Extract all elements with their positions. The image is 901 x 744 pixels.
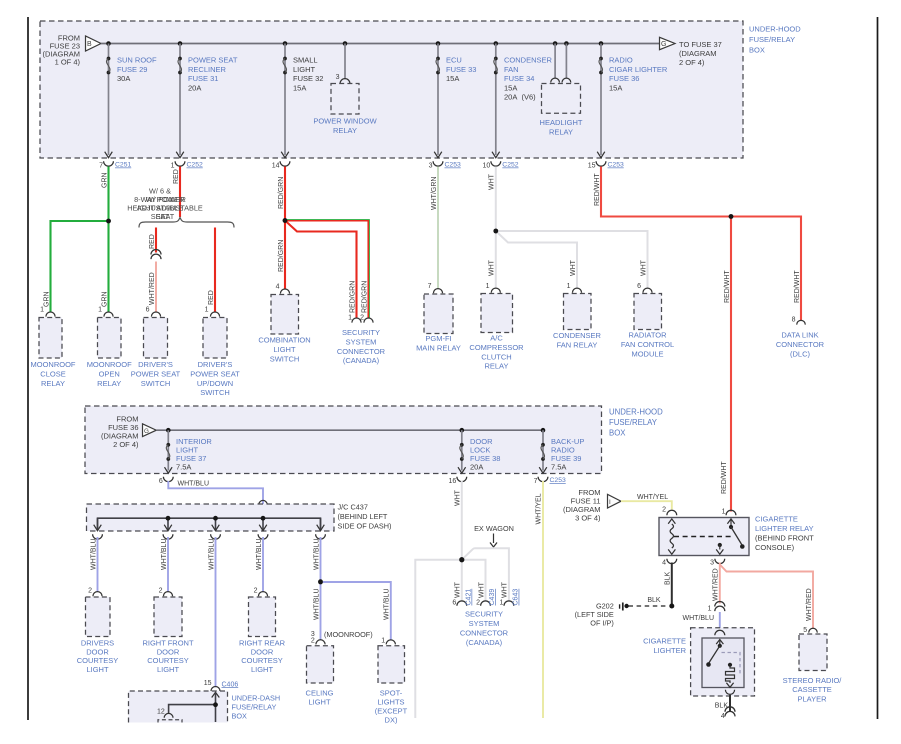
svg-text:GRN: GRN <box>43 291 50 307</box>
combination light switch (box) <box>271 295 299 335</box>
svg-text:C252: C252 <box>187 162 203 169</box>
label WHT/GRN <box>431 177 438 210</box>
svg-text:6: 6 <box>159 478 163 485</box>
connector triangle B (from fuse 23) <box>86 36 102 51</box>
svg-text:SWITCH: SWITCH <box>200 388 230 397</box>
entry arc into J/C C437 <box>259 500 267 504</box>
svg-text:7.5A: 7.5A <box>176 463 191 472</box>
pin 2 cigarette lighter relay <box>662 507 677 516</box>
J/C exits <box>93 518 326 539</box>
pin 1 C643 security connector <box>499 589 519 607</box>
svg-text:WHT: WHT <box>570 259 577 276</box>
svg-text:COURTESY: COURTESY <box>147 656 189 665</box>
label: G202 (left side of I/P) <box>575 601 614 627</box>
svg-text:1: 1 <box>205 307 209 314</box>
svg-text:DOOR: DOOR <box>157 647 180 656</box>
wire GRN from C251 pin 7 <box>107 167 109 313</box>
driver's power seat up/down switch (box) <box>203 318 227 359</box>
svg-text:2: 2 <box>88 588 92 595</box>
label WHT/RED <box>149 272 156 305</box>
svg-text:CONNECTOR: CONNECTOR <box>776 340 825 349</box>
label: stereo radio/cassette player <box>783 676 843 704</box>
label: condenser fan fuse 34 <box>504 55 553 101</box>
label: data link connector (DLC) <box>776 331 825 359</box>
svg-text:7.5A: 7.5A <box>551 463 566 472</box>
label: interior light fuse 37 7.5A <box>176 437 212 472</box>
fuse F29 (sun roof 30A) <box>107 57 111 75</box>
brace over seat switch options <box>139 218 234 228</box>
svg-text:SECURITY: SECURITY <box>342 328 380 337</box>
svg-text:14: 14 <box>272 163 280 170</box>
svg-text:RED: RED <box>208 290 215 305</box>
label: w/6 & 8-way power adjustable seat (overprinted) <box>134 187 186 222</box>
relay K headlight (dashed box) <box>542 84 581 114</box>
label WHT (C421) <box>455 581 462 598</box>
svg-text:RELAY: RELAY <box>333 126 357 135</box>
fuse F36 (radio cigar lighter 15A) <box>599 57 603 75</box>
junction box J/C C437 (dashed) <box>87 504 335 531</box>
label WHT/YEL <box>637 494 668 501</box>
svg-text:C252: C252 <box>502 162 518 169</box>
condenser fan relay (box) <box>564 294 592 330</box>
relay dashed actuator line <box>674 536 734 538</box>
svg-text:UNDER-DASH: UNDER-DASH <box>232 694 281 703</box>
svg-text:WHT/RED: WHT/RED <box>806 588 813 621</box>
exit C253 pin 3 <box>429 152 461 170</box>
svg-text:C439: C439 <box>489 589 496 606</box>
svg-text:COMBINATION: COMBINATION <box>258 336 310 345</box>
label WHT/BLU (spot) <box>383 589 390 621</box>
svg-text:WHT/GRN: WHT/GRN <box>431 177 438 210</box>
svg-text:1 OF 4): 1 OF 4) <box>55 58 81 67</box>
svg-text:6: 6 <box>146 307 150 314</box>
wire BLK from relay pin 4 <box>671 563 673 605</box>
label WHT (C439) <box>478 581 485 598</box>
wire WHT branch to condenser fan relay <box>496 231 577 289</box>
svg-text:15A: 15A <box>609 83 622 92</box>
svg-text:COMPRESSOR: COMPRESSOR <box>469 343 524 352</box>
svg-text:WHT/RED: WHT/RED <box>713 568 720 601</box>
fuse F37 (interior light 7.5A) <box>166 443 170 461</box>
label GRN upper <box>101 172 108 188</box>
exit pin 14 <box>272 152 290 170</box>
wire GRN branch to moonroof close relay <box>51 221 109 312</box>
svg-text:RED/GRN: RED/GRN <box>278 177 285 209</box>
svg-text:4: 4 <box>276 284 280 291</box>
svg-text:C643: C643 <box>513 589 520 606</box>
connector 15 C406 <box>204 680 239 691</box>
svg-text:CIGAR LIGHTER: CIGAR LIGHTER <box>609 65 668 74</box>
label WHT (condenser) <box>570 259 577 276</box>
wire inside under-dash box <box>169 692 220 722</box>
label: cigarette lighter <box>643 637 686 656</box>
junction node GRN <box>106 219 111 224</box>
svg-text:WHT/BLU: WHT/BLU <box>313 589 320 621</box>
label: sun roof fuse 29 30A <box>117 55 157 83</box>
node on bus (fuse 34) <box>494 41 499 46</box>
svg-text:5: 5 <box>803 627 807 634</box>
wire WHT/BLU to under-dash box <box>215 537 217 687</box>
svg-text:RECLINER: RECLINER <box>188 65 227 74</box>
wire RED to seat switch (left) <box>155 228 157 253</box>
svg-text:FUSE 33: FUSE 33 <box>446 65 476 74</box>
moonroof open relay (box) <box>98 318 122 359</box>
svg-text:GRN: GRN <box>101 291 108 307</box>
EX WAGON arrow <box>490 534 497 548</box>
svg-text:CIGARETTE: CIGARETTE <box>643 637 686 646</box>
svg-text:EX WAGON: EX WAGON <box>474 524 514 533</box>
svg-text:20A: 20A <box>188 83 201 92</box>
svg-text:1: 1 <box>381 638 385 645</box>
entry arc cigarette lighter <box>715 630 725 635</box>
svg-text:RIGHT REAR: RIGHT REAR <box>239 639 286 648</box>
pin 1 cigarette lighter relay <box>722 509 736 516</box>
svg-text:WHT: WHT <box>455 489 462 506</box>
svg-text:CONDENSER: CONDENSER <box>553 331 602 340</box>
fuse F33 (ECU 15A) <box>436 57 440 75</box>
label GRN right branch <box>101 291 108 307</box>
pin 1 security system connector <box>348 315 361 323</box>
svg-text:CONSOLE): CONSOLE) <box>755 543 795 552</box>
svg-text:SPOT-: SPOT- <box>380 689 403 698</box>
svg-text:3 OF 4): 3 OF 4) <box>575 514 601 523</box>
svg-text:1: 1 <box>567 283 571 290</box>
label WHT/RED (stereo) <box>806 588 813 621</box>
svg-text:SECURITY: SECURITY <box>465 610 503 619</box>
pin 2 right rear door courtesy light <box>254 588 268 597</box>
wire fuse 38 drop <box>461 430 463 470</box>
svg-text:WHT/BLU: WHT/BLU <box>683 615 715 622</box>
svg-text:ECU: ECU <box>446 55 462 64</box>
svg-text:WHT/YEL: WHT/YEL <box>536 493 543 524</box>
wire WHT/GRN from C253 pin 3 <box>437 167 439 290</box>
bus wire in top box <box>101 43 660 45</box>
wire fuse 32 drop <box>284 44 286 156</box>
wire RED/WHT to cigarette lighter relay <box>730 217 732 512</box>
svg-text:6: 6 <box>452 600 456 607</box>
fuse F39 (back-up radio 7.5A) <box>541 443 545 461</box>
svg-text:DRIVERS: DRIVERS <box>81 639 114 648</box>
junction node WHT security <box>459 557 464 562</box>
wire RED/GRN from pin 14 <box>284 167 286 290</box>
svg-text:3: 3 <box>336 74 340 81</box>
svg-text:C251: C251 <box>115 162 131 169</box>
cigarette lighter internals <box>706 640 740 688</box>
svg-text:FAN RELAY: FAN RELAY <box>557 340 598 349</box>
svg-text:1: 1 <box>499 600 503 607</box>
svg-text:LIGHT: LIGHT <box>308 698 331 707</box>
svg-text:LIGHTER RELAY: LIGHTER RELAY <box>755 524 814 533</box>
label: right rear door courtesy light <box>239 639 286 674</box>
svg-text:WHT: WHT <box>478 581 485 598</box>
exit pin 6 (interior light) <box>159 467 173 485</box>
node on bus (fuse 29) <box>106 41 111 46</box>
wire WHT/BLU from fuse 37 to J/C C437 <box>168 481 263 518</box>
label: cigarette lighter relay (behind front console) <box>755 515 814 553</box>
svg-text:SIDE OF DASH): SIDE OF DASH) <box>338 522 392 531</box>
node on bus (fuse 36) <box>599 41 604 46</box>
wire RED/GRN branch to security pin 2 <box>285 220 369 318</box>
svg-text:4: 4 <box>721 713 725 720</box>
svg-text:OF I/P): OF I/P) <box>590 619 614 628</box>
svg-text:G: G <box>144 428 149 435</box>
node on bus (fuse 33) <box>436 41 441 46</box>
svg-text:SEAT: SEAT <box>156 212 175 221</box>
svg-text:20A: 20A <box>470 463 483 472</box>
moonroof close relay (box) <box>39 318 62 359</box>
svg-text:7: 7 <box>428 283 432 290</box>
svg-text:FUSE 31: FUSE 31 <box>188 74 218 83</box>
exit pin 16 (door lock) <box>449 467 467 485</box>
wire fuse 34 drop <box>495 44 497 156</box>
svg-text:COURTESY: COURTESY <box>77 656 119 665</box>
svg-text:POWER WINDOW: POWER WINDOW <box>313 117 377 126</box>
wire WHT/BLU into cigarette lighter <box>719 612 721 631</box>
under-hood fuse/relay box (top) <box>40 21 743 158</box>
right rear door courtesy light (box) <box>249 597 276 637</box>
pin 7 PGM-FI main relay <box>428 283 443 293</box>
label: from fuse 23 (diagram 1 of 4) <box>43 34 81 67</box>
svg-text:RED/WHT: RED/WHT <box>724 270 731 303</box>
svg-text:I: I <box>609 499 611 506</box>
svg-text:SWITCH: SWITCH <box>141 379 171 388</box>
svg-text:C253: C253 <box>550 477 566 484</box>
svg-text:FAN: FAN <box>504 65 519 74</box>
svg-text:2: 2 <box>662 507 666 514</box>
label: under-dash fuse/relay box <box>232 694 281 721</box>
wire WHT from C252 pin 10 <box>495 167 497 289</box>
spot-lights box <box>378 646 405 683</box>
label: driver's power seat up/down switch <box>190 360 240 397</box>
wire RED to up/down switch <box>214 228 216 313</box>
splice RED to WHT/RED <box>151 250 161 260</box>
pin 2 C439 security connector <box>476 589 496 607</box>
node J/C 2 <box>213 516 218 521</box>
label: door lock fuse 38 20A <box>470 437 500 472</box>
svg-text:RIGHT FRONT: RIGHT FRONT <box>142 639 194 648</box>
label WHT/BLU 5 <box>313 539 320 571</box>
label: condenser fan relay <box>553 331 602 349</box>
ground G202 symbol <box>620 603 629 611</box>
svg-text:20A (V6): 20A (V6) <box>504 93 536 102</box>
svg-text:WHT: WHT <box>455 581 462 598</box>
pin 8 data link connector <box>792 317 806 325</box>
label: radiator fan control module <box>621 331 674 359</box>
svg-text:C253: C253 <box>608 162 624 169</box>
node on bus (power window relay) <box>343 41 348 46</box>
svg-text:1: 1 <box>40 307 44 314</box>
label WHT (C643) <box>502 581 509 598</box>
bus wire inside J/C C437 <box>98 518 321 528</box>
drivers door courtesy light (box) <box>86 597 111 637</box>
svg-text:FUSE/RELAY: FUSE/RELAY <box>232 703 277 712</box>
junction node RED/GRN <box>283 218 288 223</box>
junction node RED/WHT <box>729 214 734 219</box>
svg-text:WHT/BLU: WHT/BLU <box>313 539 320 571</box>
label RED/WHT (upper) <box>724 270 731 303</box>
svg-text:MOONROOF: MOONROOF <box>87 360 132 369</box>
wire WHT/BLU to right front door courtesy light <box>167 537 169 592</box>
label: from fuse 11 (diagram 3 of 4) <box>563 488 601 523</box>
node on bus (headlight relay left pin) <box>553 41 558 46</box>
wire WHT/RED branch to stereo <box>720 565 813 630</box>
svg-text:FUSE 29: FUSE 29 <box>117 65 147 74</box>
pin 4 splice (lighter ground) <box>721 707 735 720</box>
wire WHT from fuse 38 pin 16 <box>461 481 463 602</box>
svg-text:FUSE 32: FUSE 32 <box>293 74 323 83</box>
exit C253 pin 15 <box>588 152 624 170</box>
label: A/C compressor clutch relay <box>469 334 524 371</box>
label WHT/BLU (lighter) <box>683 615 715 622</box>
svg-text:3: 3 <box>710 560 714 567</box>
wire fuse 39 drop <box>542 430 544 470</box>
label WHT/BLU 1 <box>90 539 97 571</box>
svg-text:30A: 30A <box>117 74 130 83</box>
exit C252 pin 1 <box>171 152 203 170</box>
pin 3 of power window relay <box>336 74 350 84</box>
exit C251 pin 7 <box>99 152 131 170</box>
svg-text:RED/WHT: RED/WHT <box>794 270 801 303</box>
svg-text:J/C C437: J/C C437 <box>338 503 368 512</box>
label: right front door courtesy light <box>142 639 194 674</box>
label RED (right) <box>208 290 215 305</box>
label: PGM-FI main relay <box>416 334 461 352</box>
svg-text:WHT/YEL: WHT/YEL <box>637 494 668 501</box>
under-dash fuse/relay box <box>129 691 228 723</box>
svg-text:15A: 15A <box>293 83 306 92</box>
label: under-hood fuse/relay box <box>749 25 801 55</box>
label RED/WHT (lower) <box>721 461 728 494</box>
wire WHT/RED to driver's power seat switch <box>155 262 157 313</box>
svg-text:A/C: A/C <box>490 334 503 343</box>
wire WHT/RED from relay pin 3 <box>719 563 721 604</box>
connector triangle (from fuse 11) <box>608 494 622 508</box>
svg-text:2: 2 <box>254 588 258 595</box>
svg-text:MOONROOF: MOONROOF <box>31 360 76 369</box>
node J/C 1 <box>166 516 171 521</box>
svg-text:WHT: WHT <box>640 259 647 276</box>
svg-text:(CANADA): (CANADA) <box>466 638 503 647</box>
svg-text:2 OF 4): 2 OF 4) <box>679 58 705 67</box>
svg-text:SUN ROOF: SUN ROOF <box>117 55 157 64</box>
svg-text:UP/DOWN: UP/DOWN <box>197 379 233 388</box>
svg-text:1: 1 <box>486 283 490 290</box>
wire WHT/BLU branch to spot-lights <box>321 582 391 640</box>
label GRN left branch <box>43 291 50 307</box>
svg-text:(BEHIND FRONT: (BEHIND FRONT <box>755 534 814 543</box>
label: ECU fuse 33 15A <box>446 55 476 83</box>
label: drivers door courtesy light <box>77 639 119 674</box>
bus wire in second box <box>156 429 543 431</box>
svg-text:B: B <box>87 41 92 48</box>
pin 2 security system connector <box>360 315 373 323</box>
wire RED/WHT from C253 pin 15 <box>601 167 801 321</box>
svg-text:15A: 15A <box>446 74 459 83</box>
exit C252 pin 10 <box>483 152 519 170</box>
svg-text:8: 8 <box>792 317 796 324</box>
node on bus (fuse 39) <box>541 428 546 433</box>
svg-text:LIGHTS: LIGHTS <box>377 698 404 707</box>
label RED/GRN upper <box>278 177 285 209</box>
svg-text:C253: C253 <box>445 162 461 169</box>
svg-text:7: 7 <box>99 163 103 170</box>
svg-text:MODULE: MODULE <box>631 349 663 358</box>
wire fuse 37 drop <box>167 430 169 470</box>
stereo radio/cassette player (box) <box>799 634 827 671</box>
wire WHT/BLU to right rear door courtesy light <box>262 537 264 592</box>
cigarette lighter relay (box) <box>659 518 749 556</box>
node on bus (fuse 32) <box>283 41 288 46</box>
junction node under-dash <box>213 702 218 707</box>
label: J/C C437 (behind left side of dash) <box>338 503 392 531</box>
junction node WHT <box>494 229 499 234</box>
svg-text:BOX: BOX <box>232 712 248 721</box>
label: spot-lights (except dx) <box>375 689 408 725</box>
left page border <box>27 17 29 720</box>
node on bus (fuse 38) <box>460 428 465 433</box>
svg-text:10: 10 <box>483 163 491 170</box>
pins of headlight relay <box>551 78 571 82</box>
label WHT/RED (pin 3) <box>713 568 720 601</box>
label WHT/BLU 2 <box>161 539 168 571</box>
pin 2 drivers door courtesy light <box>88 588 102 597</box>
wire WHT/BLU to drivers door courtesy light <box>97 537 99 592</box>
svg-text:WHT/BLU: WHT/BLU <box>90 539 97 571</box>
svg-text:(DLC): (DLC) <box>790 349 811 358</box>
svg-text:(MOONROOF): (MOONROOF) <box>324 630 373 639</box>
label: combination light switch <box>258 336 310 364</box>
svg-text:FUSE/RELAY: FUSE/RELAY <box>749 35 795 44</box>
svg-text:FUSE 34: FUSE 34 <box>504 74 534 83</box>
svg-text:WHT: WHT <box>489 173 496 190</box>
svg-text:CONDENSER: CONDENSER <box>504 55 553 64</box>
svg-text:6: 6 <box>637 283 641 290</box>
A/C compressor clutch relay (box) <box>481 294 513 333</box>
label: moonroof open relay <box>87 360 132 388</box>
label RED/WHT (exit) <box>594 173 601 206</box>
svg-text:DATA LINK: DATA LINK <box>781 331 818 340</box>
label BLK (horizontal) <box>647 597 661 604</box>
wire WHT branch to C439 <box>462 560 486 602</box>
label WHT (radiator) <box>640 259 647 276</box>
svg-text:DRIVER'S: DRIVER'S <box>138 360 173 369</box>
svg-text:(EXCEPT: (EXCEPT <box>375 707 408 716</box>
svg-text:1: 1 <box>708 606 712 613</box>
svg-text:WHT/BLU: WHT/BLU <box>178 480 210 487</box>
svg-text:UNDER-HOOD: UNDER-HOOD <box>749 25 801 34</box>
svg-text:LIGHT: LIGHT <box>293 65 316 74</box>
svg-text:TO FUSE 37: TO FUSE 37 <box>679 40 722 49</box>
svg-text:LIGHTER: LIGHTER <box>653 646 686 655</box>
pin 1 A/C compressor clutch relay <box>486 283 501 293</box>
pin 3 cigarette lighter relay <box>710 560 714 567</box>
svg-text:HEADLIGHT: HEADLIGHT <box>540 118 583 127</box>
label RED/GRN (security 1) <box>349 281 356 313</box>
svg-text:15: 15 <box>204 680 212 687</box>
junction dot overlays <box>106 214 733 707</box>
svg-text:PLAYER: PLAYER <box>797 695 827 704</box>
label WHT upper <box>489 173 496 190</box>
junction node ceiling/spot <box>318 579 323 584</box>
svg-text:WHT: WHT <box>489 259 496 276</box>
svg-text:WHT/BLU: WHT/BLU <box>161 539 168 571</box>
wire WHT/YEL to cigarette lighter relay pin 2 <box>621 501 672 509</box>
node on bus (fuse 31) <box>178 41 183 46</box>
label: power seat recliner fuse 31 20A <box>188 55 238 92</box>
svg-text:CELING: CELING <box>306 689 334 698</box>
pin 4 combination light switch <box>276 284 290 294</box>
wire fuse 29 drop <box>108 44 110 156</box>
